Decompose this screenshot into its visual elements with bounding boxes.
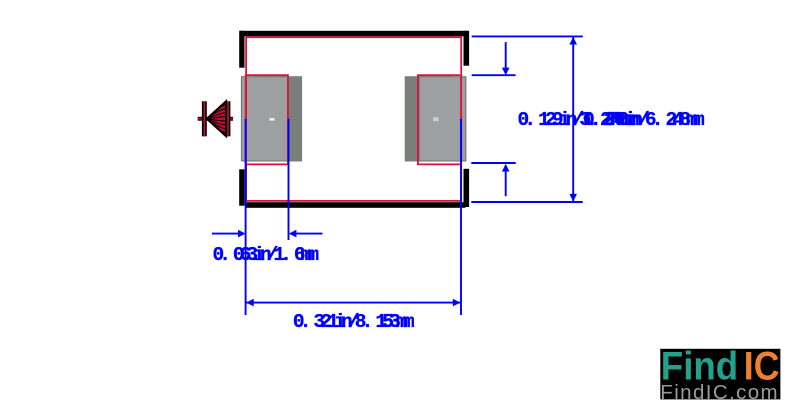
component body outline right-upper segment — [464, 31, 470, 66]
polarity diode symbol: triangle (anode) — [207, 101, 226, 136]
polarity diode symbol: right bar — [226, 101, 231, 136]
component body outline bottom segment — [246, 202, 466, 208]
extension line: pad1 right edge (vertical) — [288, 119, 290, 240]
component body outline left-upper segment — [239, 31, 244, 68]
extension line: pad2/body right edge (vertical) — [460, 119, 462, 315]
svg-text:0. 246in/6. 248mm: 0. 246in/6. 248mm — [583, 109, 705, 131]
pad 2 outline (red) — [418, 75, 461, 164]
svg-text:FindIC.com: FindIC.com — [660, 381, 777, 404]
svg-text:0. 321in/8. 153mm: 0. 321in/8. 153mm — [293, 311, 415, 333]
courtyard rectangle (red) — [246, 37, 461, 201]
polarity diode symbol: left (cathode) bar — [202, 101, 207, 136]
pad 1 copper dark layer — [255, 76, 303, 161]
extension line: body bottom — [471, 201, 582, 203]
pad 1 copper light layer — [241, 77, 288, 161]
pad 1 tiny label — [270, 118, 275, 121]
extension line: body top (blue) — [472, 35, 583, 37]
dimension 0.246in body height: line and arrows — [572, 36, 574, 202]
pad 2 copper dark layer — [405, 76, 453, 161]
extension line: pad1 left edge (vertical) — [245, 119, 247, 315]
dimension 0.321in overall width: line and arrows — [246, 302, 461, 304]
component body outline top segment (black) — [240, 31, 467, 37]
component body outline left-lower segment — [239, 169, 244, 205]
dimension 0.129in pad height: lower arrow — [505, 170, 507, 197]
FindIC logo: black box — [660, 349, 780, 400]
pad 1 outline (red) — [246, 75, 288, 164]
dimension 0.129in pad height: upper arrow — [505, 42, 507, 70]
svg-text:0. 063in/1. 6mm: 0. 063in/1. 6mm — [213, 244, 320, 266]
pad 2 tiny label — [433, 117, 439, 121]
extension line: pad bottom — [471, 162, 515, 164]
dimension 0.063in pad width: right arrow — [294, 233, 323, 235]
extension line: pad top — [472, 74, 516, 76]
polarity diode symbol: horizontal lead line — [198, 117, 233, 121]
component body outline right-lower segment — [464, 169, 470, 207]
pad 2 copper light layer — [419, 77, 466, 161]
dimension 0.063in pad width: left arrow — [212, 233, 240, 235]
polarity diode symbol: fan hatch lines — [207, 105, 226, 134]
